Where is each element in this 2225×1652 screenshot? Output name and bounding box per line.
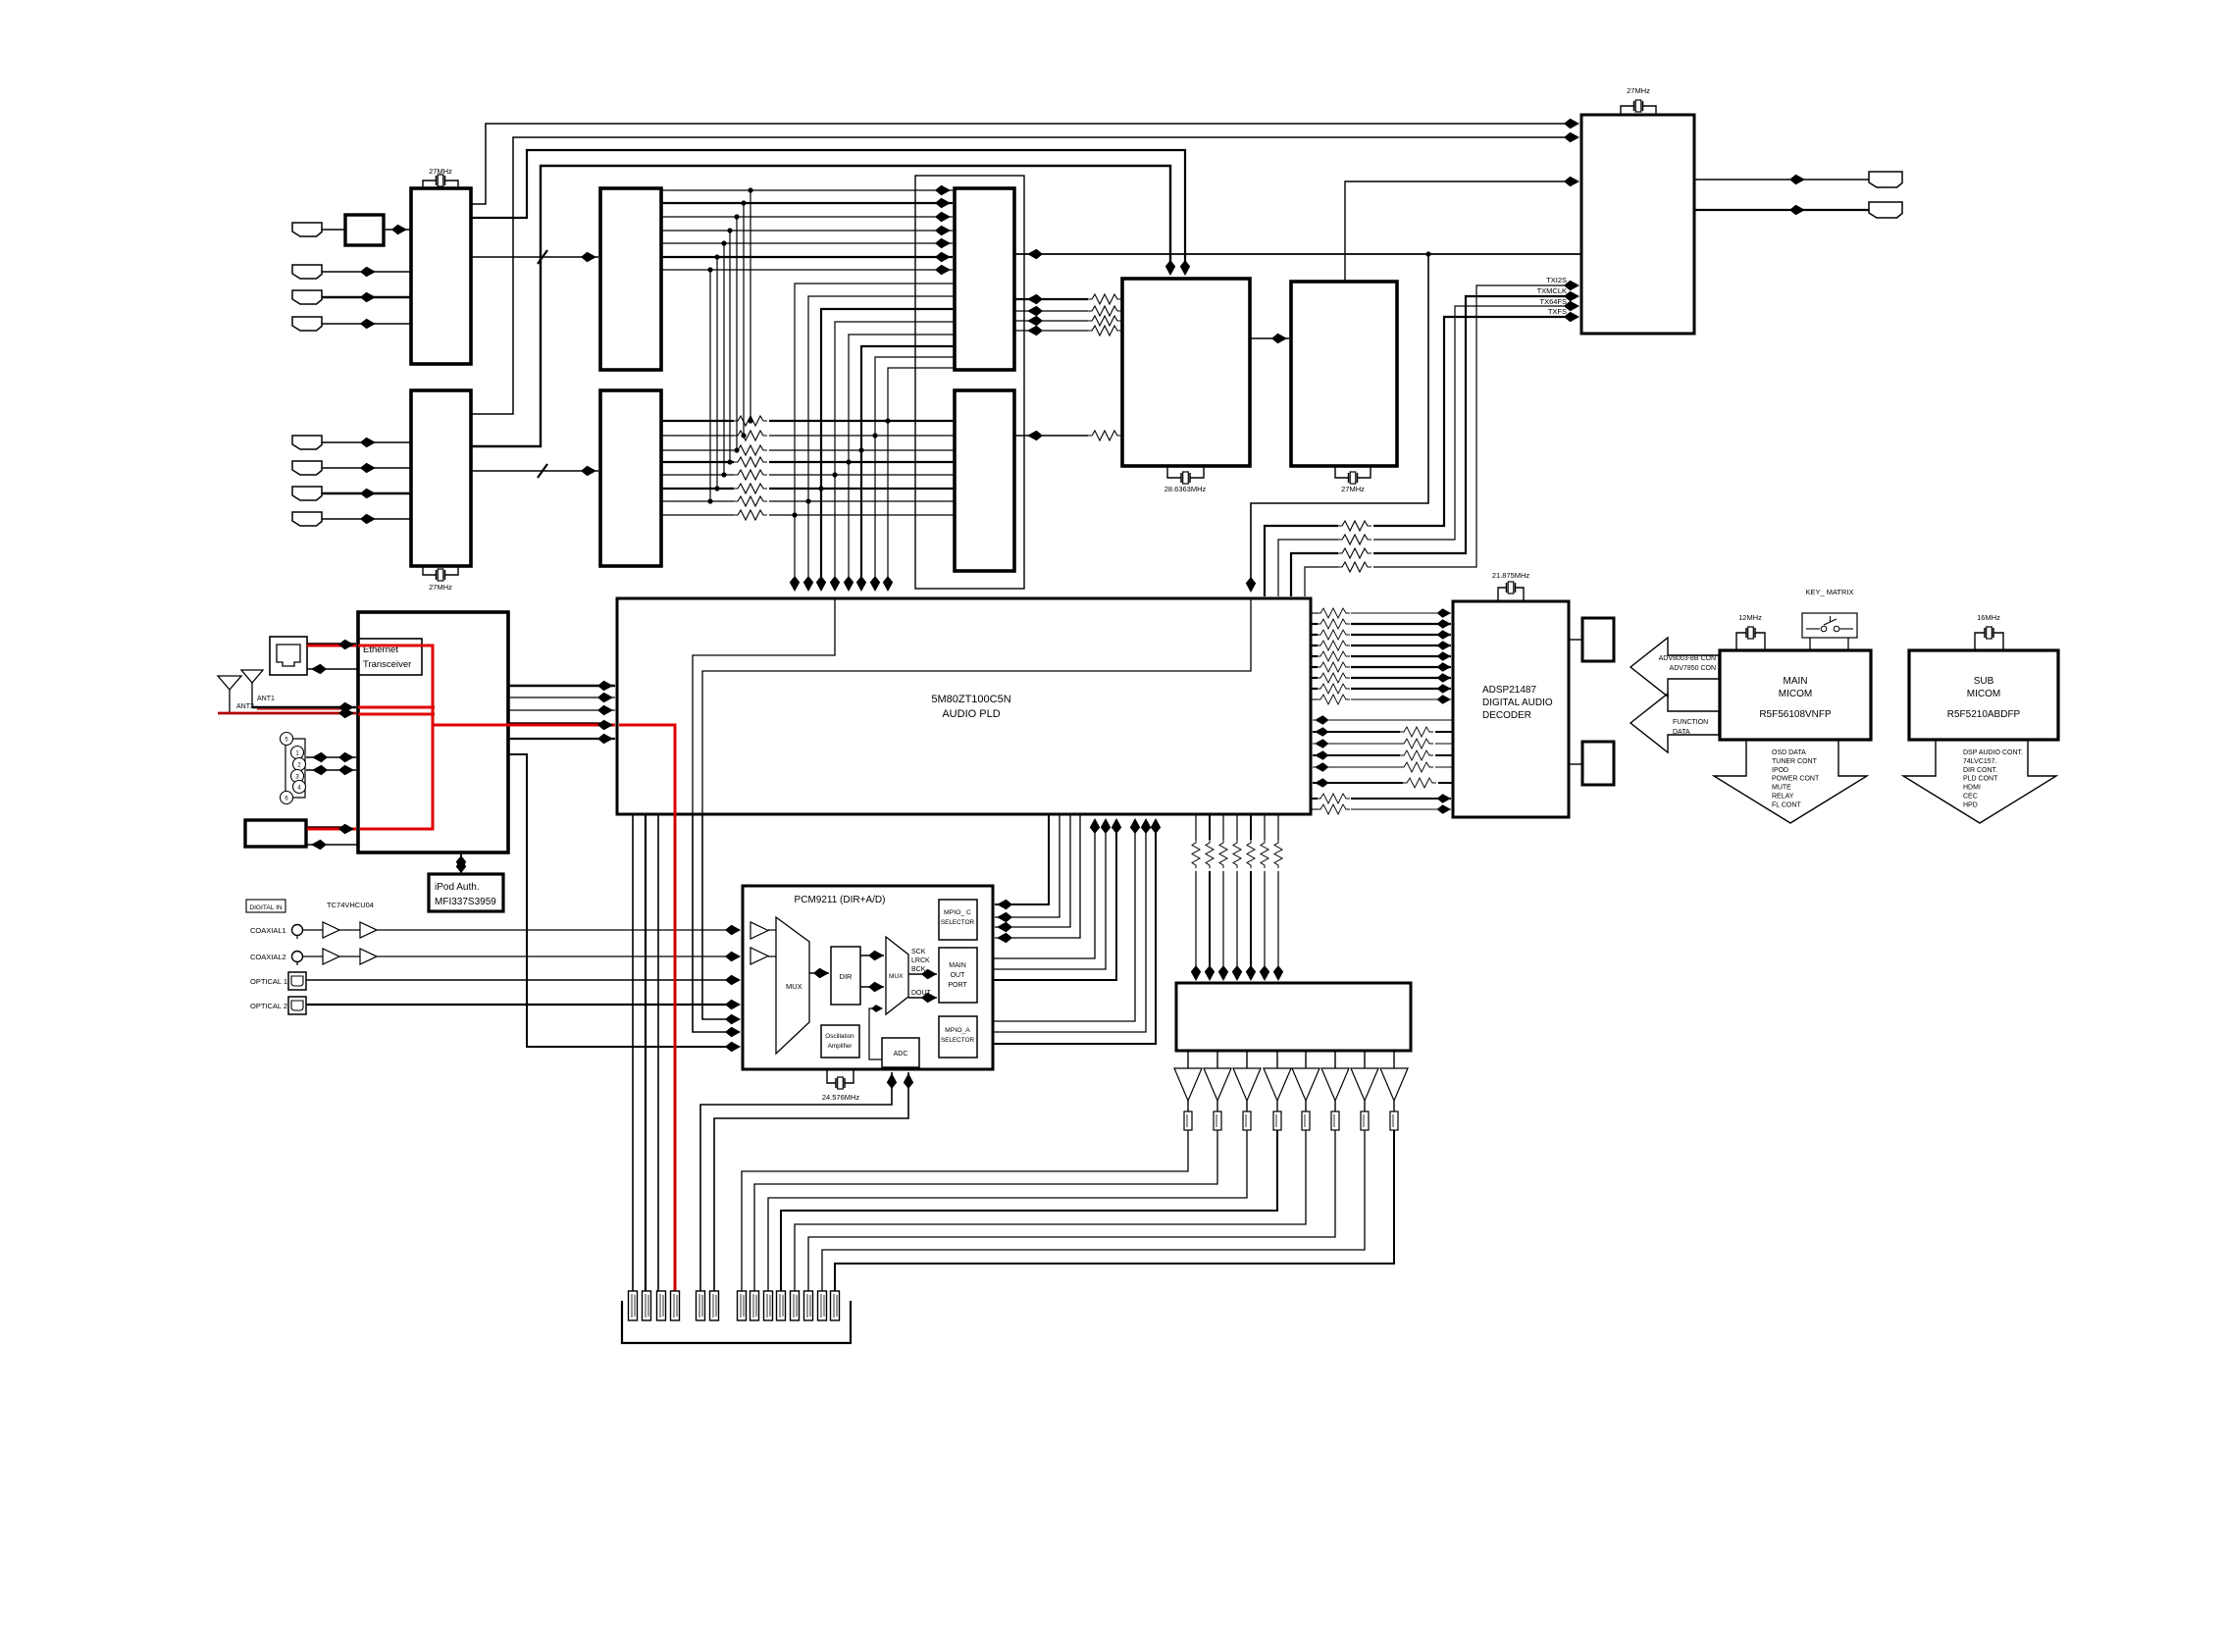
junction dot staircase 3 on resistor row (818, 486, 823, 490)
wire audio output net 7 to connector (822, 1130, 1365, 1291)
svg-text:OPTICAL 1: OPTICAL 1 (250, 977, 287, 986)
wire audio output net 4 to connector (781, 1130, 1277, 1291)
wire J3 to U1 (322, 296, 411, 298)
svg-text:FUNCTION: FUNCTION (1673, 719, 1708, 726)
wire V1 to U7 resistor link (1015, 435, 1088, 437)
hollow arrow function data to main micom (1630, 694, 1719, 752)
buffer U14 input B (750, 948, 768, 964)
wire staircase net 2 U6 to audio PLD (808, 296, 955, 586)
wire line with resistor R7 U5 to U7 (661, 500, 734, 502)
wire MPIO_C net 3 from PLD (995, 814, 1070, 927)
ferrite bead FB1 (1187, 1101, 1189, 1111)
wire MAIN OUT net 1 to PLD (993, 820, 1095, 958)
wire vertical tap 5 down to series resistor row (723, 243, 725, 475)
driver triangle T4 (1276, 1051, 1278, 1068)
wire ANT2 net inside U10 (red) (358, 713, 435, 716)
crystal X9 16MHz for U20 (1975, 633, 2003, 650)
wire staircase net 8 U6 to audio PLD (888, 368, 955, 586)
ferrite bead FB2 (1216, 1101, 1218, 1111)
wire MPIO_A net 1 to PLD (993, 820, 1135, 1021)
wire junction net HDMI link down to audio PLD (1251, 254, 1428, 587)
crystal X4 27MHz for V2 (1335, 466, 1371, 478)
wire J12 data pair 2 bidirectional (306, 769, 356, 771)
svg-text:TXFS: TXFS (1548, 307, 1567, 316)
wire ADC to M2 link (869, 1008, 882, 1059)
svg-text:DIGITAL IN: DIGITAL IN (249, 904, 283, 911)
junction dot staircase 2 on resistor row (805, 498, 810, 503)
connector J4 HDMI IN 4 (292, 317, 322, 331)
block MPIO_A SELECTOR (939, 1016, 977, 1058)
wire bus U2 to U5 (471, 470, 598, 472)
svg-text:ANT1: ANT1 (257, 696, 275, 702)
wire bus U1 to U4 (471, 256, 598, 258)
wire line with resistor R3 U5 to U7 (661, 449, 734, 451)
wire staircase net 1 U6 to audio PLD (795, 284, 955, 586)
wire MPIO_A net 2 to PLD (993, 820, 1146, 1032)
svg-text:PLD CONT: PLD CONT (1963, 776, 1998, 783)
wire internal routed net B inside U9 (702, 599, 1251, 813)
wire data line 5 U4 to U6 (661, 242, 953, 244)
wire PLD to ADSP data net 6 (1311, 666, 1318, 668)
junction dot line 6 (714, 254, 719, 259)
wire U10 to PLD net 1 (508, 685, 615, 687)
junction dot staircase 8 on resistor row (885, 418, 890, 423)
wire J8 to U2 (322, 518, 411, 520)
wire PLD to line driver block net 6 (1264, 814, 1266, 840)
driver triangle T7 (1364, 1051, 1366, 1068)
wire U10 to PLD net 5 (508, 738, 615, 740)
mux M1 trapezoid (776, 917, 809, 1054)
svg-text:OSD DATA: OSD DATA (1772, 749, 1806, 756)
block V2 video formatter 27MHz (1291, 282, 1397, 466)
label box DIGITAL IN (246, 900, 285, 912)
wire net U1 clock to video encoder V1 (471, 150, 1185, 272)
wire U3 to U1 with arrow (384, 229, 411, 231)
connector P14 audio tag 8 (831, 1291, 840, 1320)
svg-text:16MHz: 16MHz (1977, 613, 2000, 622)
boundary box around U6 U7 (915, 176, 1024, 589)
block U16 ADSP21487 digital audio decoder (1453, 601, 1569, 817)
connector P12 audio tag 6 (804, 1291, 813, 1320)
svg-text:ADC: ADC (894, 1051, 908, 1058)
block U3 level shifter (345, 215, 384, 245)
block MPIO_C SELECTOR (939, 900, 977, 940)
block U4 HDMI switch A (600, 188, 661, 370)
connector P5 bottom tag 5 (697, 1291, 705, 1320)
wire J1 to U3 (322, 229, 345, 231)
svg-text:MUX: MUX (786, 982, 802, 991)
wire V1 to U6 resistor link 3 (1015, 320, 1088, 322)
connector P13 audio tag 7 (818, 1291, 827, 1320)
svg-text:SELECTOR: SELECTOR (941, 1037, 975, 1044)
block U15 output line drivers (1176, 983, 1411, 1051)
wire M2 to MAIN OUT PORT (908, 973, 937, 975)
wire ANT2 to U10 (red) (218, 712, 356, 715)
wire staircase net 3 U6 to audio PLD (821, 309, 955, 586)
wire data line 2 U4 to U6 (661, 202, 953, 204)
wire vertical tap 3 down to series resistor row (736, 217, 738, 450)
wire audio output net 3 to connector (768, 1130, 1247, 1291)
wire audio output net 1 to connector (742, 1130, 1188, 1291)
svg-text:12MHz: 12MHz (1738, 613, 1762, 622)
block U12 iPod Auth MFI337S3959 (429, 874, 503, 911)
driver triangle T8 (1393, 1051, 1395, 1068)
wire TX audio net 2 U8 to audio PLD (1373, 296, 1570, 553)
wire PLD to ADSP lower net 2 (1311, 798, 1318, 800)
connector P10 audio tag 4 (777, 1291, 786, 1320)
wire ADSP to PLD control net 2 (1435, 731, 1453, 733)
wire PLD to ADSP data net 5 (1311, 655, 1318, 657)
bottom bracket frame (622, 1301, 851, 1343)
wire internal routed net A inside U9 (693, 599, 835, 813)
wire M1 to DIR (809, 972, 829, 974)
junction dot resistor row 7 (707, 498, 712, 503)
wire staircase net 5 U6 to audio PLD (849, 335, 955, 586)
svg-text:TC74VHCU04: TC74VHCU04 (327, 901, 374, 909)
wire PLD to ADSP data net 4 (1311, 645, 1318, 646)
wire U10 to U11 return (307, 844, 358, 846)
crystal X8 12MHz for U19 (1736, 633, 1765, 650)
wire red net U10 to audio PLD (433, 724, 615, 727)
wire vertical tap 6 down to series resistor row (716, 257, 718, 489)
connector P3 bottom tag 3 (657, 1291, 666, 1320)
wire audio output net 2 to connector (754, 1130, 1217, 1291)
svg-text:27MHz: 27MHz (429, 167, 452, 176)
wire PLD to line driver block net 3 (1222, 814, 1224, 840)
ferrite bead FB5 (1305, 1101, 1307, 1111)
wire net U2 clock to video encoder V1 (471, 166, 1170, 446)
svg-text:TX64FS: TX64FS (1539, 297, 1567, 306)
wire PLD to ADSP data net 9 (1311, 698, 1318, 700)
svg-text:IPOD: IPOD (1772, 767, 1788, 774)
wire key matrix to micom 2 (1847, 638, 1849, 650)
wire line with resistor R2 U5 to U7 (661, 435, 734, 437)
svg-text:HPD: HPD (1963, 801, 1978, 808)
connector J12 iPod dock pins (285, 739, 305, 798)
connector J11 RJ45 jack (270, 637, 307, 675)
wire COAXIAL2 chain to PCM9211 (302, 955, 323, 957)
connector P4 bottom tag red (671, 1291, 680, 1320)
block U6 video mux upper (955, 188, 1014, 370)
wire U11 to U10 (red) (307, 828, 356, 831)
wire U10 to PLD net 2 (508, 697, 615, 698)
wire internal red net inside U10 (358, 645, 433, 829)
wire main link U6 to HDMI TX with junction (1015, 253, 1581, 255)
wire tag P6 to ADC net 2 (714, 1072, 908, 1291)
svg-text:OPTICAL 2: OPTICAL 2 (250, 1002, 287, 1010)
svg-text:HDMI: HDMI (1963, 785, 1981, 792)
wire PLD to ADSP data net 2 (1311, 623, 1318, 625)
connector J5 HDMI IN 5 (292, 436, 322, 449)
crystal X6 24.576MHz for U14 (827, 1068, 854, 1083)
wire MPIO_C net 2 from PLD (995, 814, 1060, 917)
wire data line 1 U4 to U6 (661, 189, 953, 191)
wire U10 to RJ45 return (307, 668, 358, 670)
svg-text:COAXIAL2: COAXIAL2 (250, 953, 286, 961)
wire data line 3 U4 to U6 (661, 216, 953, 218)
wire MAIN OUT net 3 to PLD (993, 820, 1116, 980)
junction dot resistor row 3 (734, 447, 739, 452)
wire ADSP to PLD control net 1 (1313, 719, 1453, 721)
junction dot staircase 4 on resistor row (832, 472, 837, 477)
junction dot main link (1425, 251, 1430, 256)
driver triangle T3 (1246, 1051, 1248, 1068)
svg-text:R5F5210ABDFP: R5F5210ABDFP (1947, 709, 2021, 720)
wire DIR to M2 line 2 (860, 986, 884, 988)
wire TX audio net 3 U8 to audio PLD (1373, 306, 1570, 540)
svg-text:MICOM: MICOM (1779, 689, 1812, 699)
key matrix box (1802, 613, 1857, 638)
svg-text:iPod Auth.: iPod Auth. (435, 882, 480, 893)
wire net U1 pin to HDMI TX top line 1 (471, 124, 1571, 204)
hollow arrow ADV con to main micom (1630, 638, 1719, 697)
wire PLD to line driver block net 2 (1209, 814, 1211, 840)
wire J7 to U2 (322, 492, 411, 494)
junction dot line 4 (727, 228, 732, 232)
junction dot staircase 6 on resistor row (858, 447, 863, 452)
wire J2 to U1 (322, 271, 411, 273)
svg-text:MUX: MUX (889, 973, 904, 980)
block U7 video mux lower (955, 390, 1014, 571)
junction dot line 1 (748, 187, 752, 192)
svg-text:MAIN: MAIN (949, 962, 966, 969)
wire vertical tap 1 down to series resistor row (750, 190, 751, 421)
svg-text:27MHz: 27MHz (1627, 86, 1650, 95)
svg-text:BCK: BCK (911, 966, 926, 973)
wire ADSP to U17 (1569, 639, 1582, 641)
wire TX audio net 1 U8 to audio PLD (1373, 285, 1570, 567)
wire V2 up to HDMI TX (1345, 181, 1570, 282)
wire ANT1 to U10 (252, 706, 356, 708)
wire OPTICAL1 to PCM9211 (306, 979, 734, 981)
wire ANT1 net inside U10 (red) (358, 706, 435, 709)
wire ADSP to PLD control net 3 (1435, 743, 1453, 745)
wire PLD to line driver block net 7 (1277, 814, 1279, 840)
wire M2 DOUT to MAIN OUT PORT (908, 997, 937, 999)
wire ADSP to PLD lower net 1 (1438, 782, 1453, 784)
block V1 video encoder 28.6363MHz (1122, 279, 1250, 466)
junction dot resistor row 1 (748, 418, 752, 423)
wire MPIO_A net 3 to PLD (993, 820, 1156, 1044)
wire data line 7 U4 to U6 (661, 269, 953, 271)
wire PLD to bottom connector net 3 (657, 814, 659, 1291)
ferrite bead FB4 (1276, 1101, 1278, 1111)
wire red net inside audio PLD down to bottom (619, 725, 675, 814)
wire bufferB to M1 (768, 955, 776, 957)
block U20 SUB MICOM R5F5210ABDFP (1909, 650, 2058, 740)
connector P7 audio tag 1 (738, 1291, 747, 1320)
block U5 HDMI switch B (600, 390, 661, 566)
wire PLD to ADSP data net 8 (1311, 688, 1318, 690)
wire HDMI TX output 2 (1694, 209, 1869, 211)
junction dot staircase 7 on resistor row (872, 433, 877, 438)
wire DIR to M2 line 1 (860, 955, 884, 956)
wire J12 data pair 1 bidirectional (306, 756, 356, 758)
wire line with resistor R1 U5 to U7 (661, 420, 734, 422)
connector J1 HDMI IN 1 (292, 223, 322, 236)
connector J9 HDMI OUT 1 (1869, 172, 1902, 187)
svg-text:74LVC157.: 74LVC157. (1963, 758, 1997, 765)
block U1 HDMI receiver A (411, 188, 471, 364)
junction dot line 3 (734, 214, 739, 219)
wire U10 to PCM9211 RXIN net (508, 754, 734, 1047)
connector J6 HDMI IN 6 (292, 461, 322, 475)
svg-text:FL CONT: FL CONT (1772, 801, 1801, 808)
svg-text:MAIN: MAIN (1784, 676, 1808, 687)
connector P11 audio tag 5 (791, 1291, 800, 1320)
svg-text:TUNER CONT: TUNER CONT (1772, 758, 1818, 765)
wire staircase net 7 U6 to audio PLD (875, 357, 955, 586)
svg-text:POWER CONT: POWER CONT (1772, 776, 1820, 783)
svg-text:SUB: SUB (1974, 676, 1994, 687)
wire U10 to PLD net 3 (508, 709, 615, 711)
svg-text:DIGITAL AUDIO: DIGITAL AUDIO (1482, 697, 1553, 708)
antenna ANT1 (241, 670, 263, 683)
ferrite bead FB8 (1393, 1101, 1395, 1111)
wire red net PLD to bottom connector (674, 814, 677, 1291)
svg-text:28.6363MHz: 28.6363MHz (1164, 485, 1207, 493)
junction dot resistor row 6 (714, 486, 719, 490)
svg-text:TXI2S: TXI2S (1546, 276, 1567, 284)
wire MAIN OUT net 2 to PLD (993, 820, 1106, 969)
block U10 network module (358, 612, 508, 852)
junction dot staircase 5 on resistor row (846, 459, 851, 464)
svg-text:5M80ZT100C5N: 5M80ZT100C5N (931, 694, 1010, 705)
mux M2 trapezoid (886, 937, 908, 1014)
svg-text:MUTE: MUTE (1772, 785, 1791, 792)
svg-text:PORT: PORT (948, 982, 967, 989)
wire line with resistor R8 U5 to U7 (661, 514, 734, 516)
ferrite bead FB6 (1334, 1101, 1336, 1111)
junction dot resistor row 5 (721, 472, 726, 477)
crystal X3 28.6363MHz (1167, 466, 1204, 478)
wire line with resistor R5 U5 to U7 (661, 474, 734, 476)
connector J8 HDMI IN 8 (292, 512, 322, 526)
wire TX audio net 4 U8 to audio PLD (1373, 317, 1570, 526)
wire key matrix to micom 1 (1809, 638, 1811, 650)
block MAIN OUT PORT (939, 948, 977, 1003)
connector J10 HDMI OUT 2 (1869, 202, 1902, 218)
wire vertical tap 2 down to series resistor row (743, 203, 745, 436)
driver triangle T6 (1334, 1051, 1336, 1068)
hollow down arrow main micom outputs (1714, 741, 1867, 823)
wire V1 to U6 resistor link 1 (1015, 298, 1088, 300)
svg-text:PCM9211 (DIR+A/D): PCM9211 (DIR+A/D) (795, 895, 886, 905)
svg-text:MFI337S3959: MFI337S3959 (435, 897, 496, 907)
crystal X7 21.875MHz for U16 (1498, 588, 1524, 601)
connector J3 HDMI IN 3 (292, 290, 322, 304)
junction dot line 7 (707, 267, 712, 272)
wire audio output net 6 to connector (808, 1130, 1335, 1291)
block U18 ADSP side memory B (1582, 742, 1614, 785)
wire COAXIAL1 chain to PCM9211 (302, 929, 323, 931)
block U17 ADSP side memory A (1582, 618, 1614, 661)
buffer U13d (360, 949, 377, 964)
svg-text:27MHz: 27MHz (1341, 485, 1365, 493)
svg-text:21.875MHz: 21.875MHz (1492, 571, 1530, 580)
svg-text:DSP AUDIO CONT.: DSP AUDIO CONT. (1963, 749, 2023, 756)
wire tag P5 to ADC net 1 (700, 1072, 892, 1291)
wire staircase net 4 U6 to audio PLD (835, 322, 955, 586)
buffer U13c (323, 949, 339, 964)
wire ADSP to U18 (1569, 763, 1582, 765)
svg-text:CEC: CEC (1963, 794, 1978, 800)
wire PLD to ADSP data net 3 (1311, 634, 1318, 636)
block U2 HDMI receiver B (411, 390, 471, 566)
svg-text:27MHz: 27MHz (429, 583, 452, 592)
wire V1 to U6 resistor link 4 (1015, 330, 1088, 332)
wire audio output net 5 to connector (795, 1130, 1306, 1291)
wire bufferA to M1 (768, 929, 776, 931)
crystal X5 27MHz for U8 (1621, 106, 1656, 115)
svg-text:KEY_ MATRIX: KEY_ MATRIX (1805, 588, 1853, 596)
wire MPIO_C net 1 from PLD (995, 814, 1049, 904)
wire PLD to line driver block net 5 (1250, 814, 1252, 840)
svg-text:DIR CONT.: DIR CONT. (1963, 767, 1997, 774)
svg-text:24.576MHz: 24.576MHz (822, 1093, 860, 1102)
driver triangle T2 (1216, 1051, 1218, 1068)
wire PLD to bottom connector net 2 (645, 814, 647, 1291)
block U14 PCM9211 DIR+AD (743, 886, 993, 1069)
wire J5 to U2 (322, 441, 411, 443)
driver triangle T5 (1305, 1051, 1307, 1068)
wire line with resistor R4 U5 to U7 (661, 461, 734, 463)
svg-text:DIR: DIR (840, 972, 854, 981)
driver triangle T1 (1187, 1051, 1189, 1068)
crystal X2 27MHz for U2 (423, 566, 458, 575)
svg-text:MICOM: MICOM (1967, 689, 2000, 699)
block oscillation amplifier (821, 1025, 859, 1058)
connector P9 audio tag 3 (764, 1291, 773, 1320)
junction dot resistor row 2 (741, 433, 746, 438)
crystal X1 27MHz for U1 (423, 181, 458, 188)
svg-text:MPIO_A: MPIO_A (945, 1027, 970, 1034)
block U11 wifi module (245, 820, 306, 847)
wire vertical tap 7 down to series resistor row (709, 270, 711, 501)
wire J4 to U1 (322, 323, 411, 325)
wire passthrough net A to PCM9211 (693, 814, 734, 1032)
junction dot line 5 (721, 240, 726, 245)
antenna ANT2 (218, 676, 241, 690)
block U9 audio PLD 5M80ZT100C5N (617, 598, 1311, 814)
wire J6 to U2 (322, 467, 411, 469)
connector J7 HDMI IN 7 (292, 487, 322, 500)
wire MPIO_C net 4 from PLD (995, 814, 1080, 938)
wire OPTICAL2 to PCM9211 (306, 1004, 734, 1006)
wire line with resistor R6 U5 to U7 (661, 488, 734, 490)
wire U10 to U12 bidirectional (460, 852, 462, 874)
hollow down arrow sub micom outputs (1903, 741, 2056, 823)
block U8 HDMI transmitter (1581, 115, 1694, 334)
svg-text:MPIO_ C: MPIO_ C (944, 909, 971, 916)
svg-text:ADV8003-8B CON: ADV8003-8B CON (1659, 655, 1716, 662)
block U19 MAIN MICOM R5F56108VNFP (1720, 650, 1871, 740)
svg-text:SELECTOR: SELECTOR (941, 919, 975, 926)
svg-text:DECODER: DECODER (1482, 710, 1531, 721)
wire PLD to line driver block net 4 (1236, 814, 1238, 840)
svg-text:Amplifier: Amplifier (828, 1043, 854, 1050)
wire data line 4 U4 to U6 (661, 230, 953, 232)
wire staircase net 6 U6 to audio PLD (861, 346, 955, 586)
block label box Ethernet Transceiver (359, 639, 422, 675)
connector P6 bottom tag 6 (710, 1291, 719, 1320)
block DIR (831, 947, 860, 1005)
buffer U14 input A (750, 922, 768, 939)
wire ADSP to PLD control net 4 (1435, 754, 1453, 756)
ferrite bead FB7 (1364, 1101, 1366, 1111)
svg-text:LRCK: LRCK (911, 957, 930, 964)
key matrix switch symbol (1806, 628, 1820, 630)
